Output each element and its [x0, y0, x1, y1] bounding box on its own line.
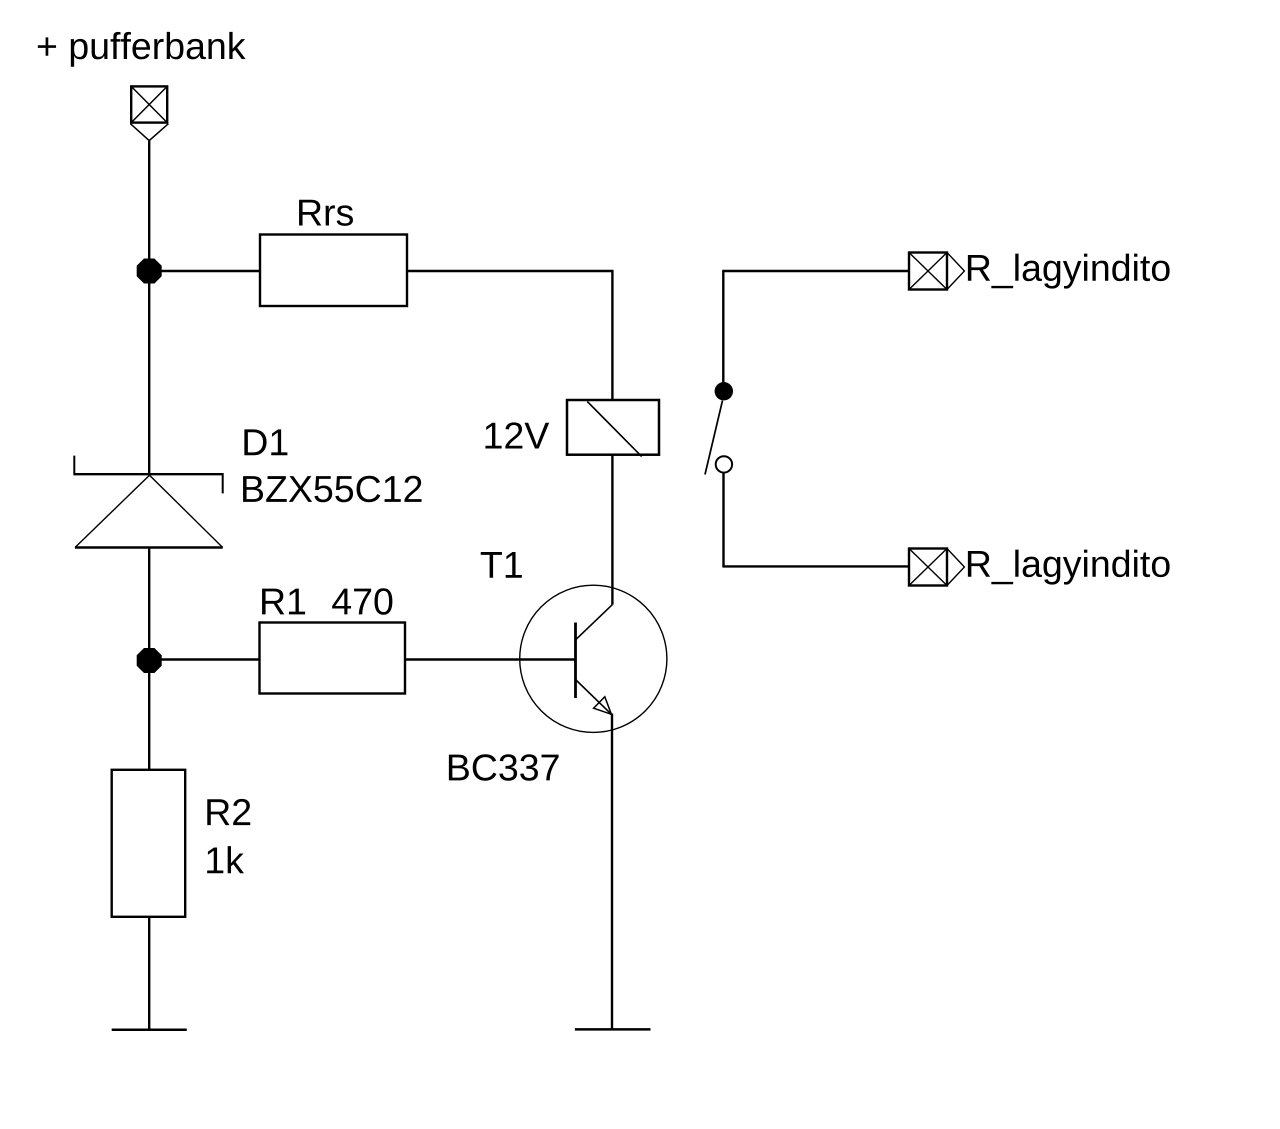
net label R_lagyindito top	[968, 254, 1170, 289]
transistor T1	[520, 585, 667, 732]
switch S1 lever	[705, 401, 723, 475]
wire R1 to base	[405, 658, 575, 660]
junction node 1	[137, 259, 162, 284]
wire node 1 to Rrs	[149, 270, 260, 272]
wire D1 to node 2	[148, 548, 150, 661]
wire bottom horizontal to connector	[722, 565, 909, 567]
switch S1 contact dot	[715, 382, 733, 400]
value label 1k	[207, 846, 244, 873]
label T1	[481, 552, 522, 578]
wire emitter to ground	[611, 714, 613, 1030]
net label + pufferbank	[38, 32, 246, 67]
label Rrs	[299, 200, 353, 226]
wire relay to collector	[611, 455, 613, 605]
connector pin R_lagyindito top	[909, 253, 964, 290]
wire Rrs to corner	[407, 270, 612, 272]
connector pin R_lagyindito bottom	[909, 549, 964, 586]
resistor R2	[112, 770, 186, 917]
wire R2 to ground	[148, 917, 150, 1030]
net label R_lagyindito bottom	[968, 550, 1170, 585]
wire node 1 to D1	[148, 271, 150, 474]
label R2	[207, 799, 250, 825]
ground left	[112, 1029, 187, 1032]
wire pufferbank to node 1	[148, 141, 150, 271]
ground right	[575, 1028, 651, 1031]
label D1	[244, 429, 287, 455]
wire node 2 to R2	[148, 661, 150, 770]
resistor Rrs	[260, 235, 407, 307]
value label 12V	[485, 422, 549, 448]
wire corner down to relay coil	[611, 270, 613, 400]
relay coil K1	[567, 400, 659, 457]
connector pin +pufferbank	[130, 86, 168, 140]
wire top horizontal to connector	[722, 270, 909, 272]
wire switch to bottom corner	[722, 473, 724, 567]
label R1 470	[262, 589, 305, 615]
zener diode D1	[74, 456, 223, 548]
junction node 2	[137, 648, 162, 673]
wire node 2 to R1	[149, 658, 259, 660]
resistor R1	[260, 623, 406, 694]
value label BC337	[449, 754, 559, 781]
wire top to switch	[722, 271, 724, 383]
switch S1 open contact	[716, 456, 732, 472]
value label BZX55C12	[243, 476, 421, 503]
